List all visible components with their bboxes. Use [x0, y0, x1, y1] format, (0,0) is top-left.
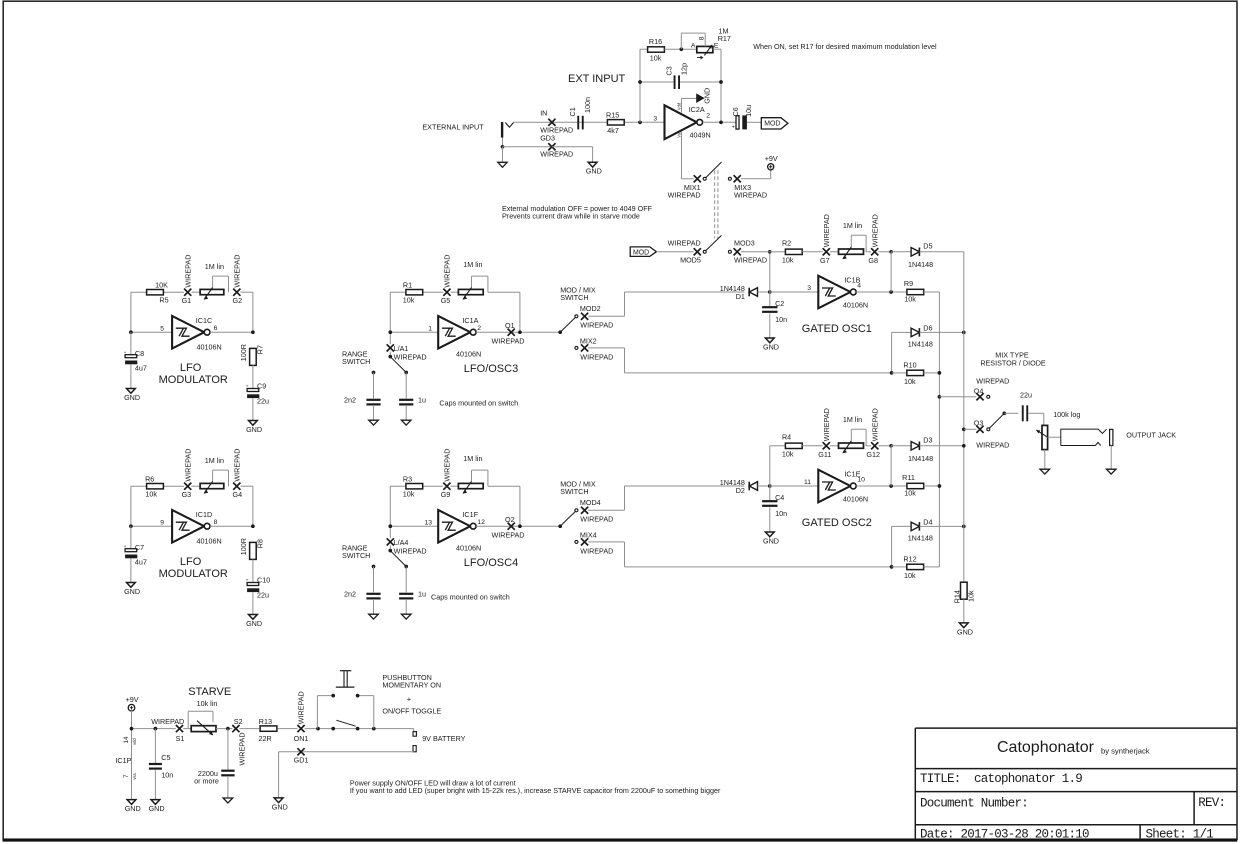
svg-text:22R: 22R	[259, 734, 272, 743]
svg-text:MODULATOR: MODULATOR	[159, 374, 228, 386]
svg-text:EXTERNAL INPUT: EXTERNAL INPUT	[422, 122, 484, 131]
svg-text:GND: GND	[246, 619, 262, 628]
svg-text:or more: or more	[194, 777, 219, 786]
svg-text:+9V: +9V	[126, 695, 139, 704]
svg-text:If you want to add LED (super: If you want to add LED (super bright wit…	[350, 786, 721, 795]
svg-text:S2: S2	[234, 717, 243, 726]
svg-text:R1: R1	[403, 281, 412, 290]
svg-text:D5: D5	[923, 242, 932, 251]
svg-text:GND: GND	[125, 804, 141, 813]
svg-text:IC1A: IC1A	[462, 316, 478, 325]
svg-text:Date: 2017-03-28 20:01:10: Date: 2017-03-28 20:01:10	[920, 827, 1089, 841]
svg-text:C8: C8	[135, 349, 144, 358]
svg-text:2n2: 2n2	[344, 590, 356, 599]
svg-text:10k: 10k	[904, 377, 916, 386]
svg-text:LFO: LFO	[180, 362, 202, 374]
svg-text:R8: R8	[256, 539, 265, 548]
svg-text:1N4148: 1N4148	[908, 534, 933, 543]
svg-text:WIREPAD: WIREPAD	[580, 515, 613, 524]
svg-text:GND: GND	[957, 627, 973, 636]
svg-text:GATED OSC2: GATED OSC2	[802, 517, 872, 529]
svg-text:22u: 22u	[257, 396, 269, 405]
svg-text:G4: G4	[233, 490, 243, 499]
svg-text:40106N: 40106N	[456, 544, 481, 553]
svg-text:GND: GND	[272, 802, 288, 811]
svg-text:MOD2: MOD2	[580, 304, 601, 313]
svg-text:MOD3: MOD3	[734, 239, 755, 248]
svg-text:WIREPAD: WIREPAD	[870, 408, 879, 441]
svg-text:When ON, set R17 for desired m: When ON, set R17 for desired maximum mod…	[753, 42, 937, 51]
svg-text:4049N: 4049N	[690, 131, 711, 140]
svg-text:MIX4: MIX4	[580, 530, 597, 539]
svg-text:10k: 10k	[145, 490, 157, 499]
svg-text:2: 2	[706, 113, 710, 120]
svg-text:IC1B: IC1B	[844, 275, 860, 284]
svg-text:GD1: GD1	[294, 756, 309, 765]
svg-text:1N4148: 1N4148	[908, 454, 933, 463]
svg-text:100R: 100R	[239, 344, 248, 361]
svg-text:IC1D: IC1D	[196, 510, 212, 519]
svg-text:Vdd: Vdd	[676, 102, 681, 110]
svg-text:WIREPAD: WIREPAD	[976, 377, 1009, 386]
svg-text:3: 3	[653, 115, 657, 122]
svg-text:10k: 10k	[782, 450, 794, 459]
svg-text:10k: 10k	[904, 571, 916, 580]
svg-text:G11: G11	[818, 450, 831, 459]
svg-text:TITLE: catophonator 1.9: TITLE: catophonator 1.9	[920, 772, 1082, 786]
svg-text:SWITCH: SWITCH	[342, 551, 370, 560]
svg-text:ON1: ON1	[294, 734, 309, 743]
svg-text:IN: IN	[540, 109, 547, 118]
svg-text:22u: 22u	[257, 590, 269, 599]
svg-text:2n2: 2n2	[344, 396, 356, 405]
svg-text:WIREPAD: WIREPAD	[580, 352, 613, 361]
svg-text:ON/OFF TOGGLE: ON/OFF TOGGLE	[382, 706, 441, 715]
svg-text:Catophonator: Catophonator	[997, 739, 1095, 756]
svg-text:14: 14	[123, 736, 130, 743]
svg-text:WIREPAD: WIREPAD	[443, 449, 452, 482]
svg-text:WIREPAD: WIREPAD	[734, 256, 767, 265]
svg-text:R4: R4	[782, 433, 791, 442]
svg-text:R7: R7	[256, 345, 265, 354]
svg-text:10K: 10K	[155, 281, 168, 290]
svg-text:R13: R13	[259, 717, 272, 726]
svg-text:GND: GND	[763, 536, 779, 545]
svg-text:WIREPAD: WIREPAD	[232, 449, 241, 482]
svg-text:9: 9	[160, 519, 164, 526]
svg-text:WIREPAD: WIREPAD	[668, 191, 701, 200]
svg-text:R3: R3	[403, 475, 412, 484]
svg-text:+: +	[407, 694, 411, 703]
svg-text:100R: 100R	[239, 538, 248, 555]
svg-text:1M lin: 1M lin	[205, 456, 224, 465]
svg-text:OUTPUT JACK: OUTPUT JACK	[1126, 430, 1176, 439]
svg-text:Document Number:: Document Number:	[920, 796, 1028, 810]
svg-text:G12: G12	[866, 450, 880, 459]
svg-text:R5: R5	[159, 296, 168, 305]
svg-text:40106N: 40106N	[197, 343, 222, 352]
svg-text:A: A	[691, 43, 696, 50]
svg-text:WIREPAD: WIREPAD	[296, 691, 305, 724]
svg-text:D3: D3	[923, 436, 932, 445]
svg-text:1M lin: 1M lin	[463, 454, 482, 463]
svg-text:C3: C3	[665, 66, 674, 75]
svg-text:G3: G3	[182, 490, 192, 499]
svg-text:R15: R15	[606, 110, 619, 119]
svg-text:1u: 1u	[418, 590, 426, 599]
svg-text:WIREPAD: WIREPAD	[580, 546, 613, 555]
svg-text:4u7: 4u7	[135, 558, 147, 567]
svg-text:1u: 1u	[418, 396, 426, 405]
svg-text:C9: C9	[257, 382, 266, 391]
svg-text:IC1E: IC1E	[844, 469, 860, 478]
svg-text:1M lin: 1M lin	[463, 260, 482, 269]
svg-text:10k: 10k	[904, 294, 916, 303]
svg-text:GND: GND	[149, 804, 165, 813]
svg-text:G8: G8	[868, 256, 878, 265]
svg-text:7: 7	[123, 774, 130, 778]
svg-text:MOD5: MOD5	[680, 256, 701, 265]
svg-text:GATED OSC1: GATED OSC1	[802, 323, 872, 335]
svg-text:1M lin: 1M lin	[843, 221, 862, 230]
svg-text:10u: 10u	[744, 105, 753, 117]
svg-text:WIREPAD: WIREPAD	[540, 149, 573, 158]
svg-text:+: +	[124, 351, 127, 356]
svg-text:R12: R12	[903, 554, 916, 563]
svg-text:WIREPAD: WIREPAD	[491, 530, 524, 539]
svg-text:WIREPAD: WIREPAD	[734, 191, 767, 200]
svg-text:SWITCH: SWITCH	[560, 487, 588, 496]
svg-text:O3: O3	[974, 418, 984, 427]
svg-text:GND: GND	[124, 393, 140, 402]
svg-text:10k: 10k	[650, 54, 662, 63]
svg-text:WIREPAD: WIREPAD	[822, 408, 831, 441]
svg-text:40106N: 40106N	[843, 301, 868, 310]
svg-text:9V BATTERY: 9V BATTERY	[422, 734, 465, 743]
svg-text:+: +	[246, 579, 249, 584]
svg-text:100n: 100n	[583, 97, 592, 113]
svg-text:SWITCH: SWITCH	[560, 293, 588, 302]
svg-text:C6: C6	[731, 107, 740, 116]
svg-text:40106N: 40106N	[197, 537, 222, 546]
svg-text:2: 2	[477, 325, 481, 332]
svg-text:STARVE: STARVE	[188, 686, 231, 698]
svg-text:WIREPAD: WIREPAD	[976, 440, 1009, 449]
svg-text:11: 11	[804, 479, 811, 486]
svg-text:C10: C10	[257, 576, 270, 585]
svg-text:C1: C1	[568, 107, 577, 116]
svg-text:10k lin: 10k lin	[197, 699, 218, 708]
svg-text:WIREPAD: WIREPAD	[183, 449, 192, 482]
svg-text:D6: D6	[923, 323, 932, 332]
svg-text:D4: D4	[923, 517, 932, 526]
svg-text:+: +	[246, 385, 249, 390]
svg-text:D1: D1	[736, 292, 745, 301]
svg-text:MOD: MOD	[633, 250, 649, 257]
svg-text:8: 8	[214, 519, 218, 526]
svg-text:4k7: 4k7	[607, 126, 619, 135]
svg-text:1: 1	[428, 325, 432, 332]
svg-text:13: 13	[424, 519, 432, 526]
svg-text:O4: O4	[974, 386, 984, 395]
svg-text:IC1C: IC1C	[196, 316, 212, 325]
svg-text:+: +	[732, 124, 735, 130]
svg-text:WIREPAD: WIREPAD	[151, 717, 184, 726]
svg-text:40106N: 40106N	[456, 350, 481, 359]
svg-text:C5: C5	[161, 753, 170, 762]
svg-text:+: +	[124, 545, 127, 550]
svg-text:40106N: 40106N	[843, 495, 868, 504]
svg-text:10k: 10k	[904, 488, 916, 497]
svg-text:LFO/OSC4: LFO/OSC4	[464, 557, 518, 569]
svg-text:WIREPAD: WIREPAD	[580, 321, 613, 330]
svg-text:R17: R17	[718, 34, 731, 43]
svg-text:vss: vss	[132, 773, 137, 779]
svg-text:R16: R16	[649, 37, 662, 46]
svg-text:R14: R14	[952, 590, 961, 603]
svg-text:LFO/OSC3: LFO/OSC3	[464, 363, 518, 375]
svg-text:R9: R9	[904, 279, 913, 288]
svg-text:10k: 10k	[403, 490, 415, 499]
svg-text:1M lin: 1M lin	[205, 262, 224, 271]
svg-text:Caps mounted on switch: Caps mounted on switch	[439, 398, 518, 407]
svg-text:G1: G1	[182, 296, 192, 305]
svg-text:Vss: Vss	[676, 131, 681, 138]
svg-text:IC2A: IC2A	[689, 105, 705, 114]
svg-text:12: 12	[477, 519, 485, 526]
svg-text:8: 8	[698, 36, 705, 40]
svg-text:G5: G5	[441, 296, 451, 305]
svg-text:3: 3	[807, 285, 811, 292]
svg-text:WIREPAD: WIREPAD	[668, 239, 701, 248]
svg-text:C7: C7	[135, 543, 144, 552]
svg-text:G2: G2	[233, 296, 243, 305]
svg-text:R10: R10	[903, 360, 916, 369]
svg-text:GND: GND	[763, 342, 779, 351]
svg-text:WIREPAD: WIREPAD	[443, 255, 452, 288]
svg-text:5: 5	[160, 325, 164, 332]
svg-text:G9: G9	[441, 490, 451, 499]
svg-text:R11: R11	[902, 473, 915, 482]
svg-text:WIREPAD: WIREPAD	[183, 255, 192, 288]
svg-text:Prevents current draw while in: Prevents current draw while in starve mo…	[502, 211, 640, 220]
svg-text:Sheet: 1/1: Sheet: 1/1	[1146, 827, 1214, 841]
svg-text:MOD: MOD	[764, 121, 780, 128]
svg-text:S1: S1	[176, 734, 185, 743]
svg-text:MOD4: MOD4	[580, 498, 601, 507]
svg-text:by syntherjack: by syntherjack	[1101, 747, 1150, 756]
svg-text:GND: GND	[124, 587, 140, 596]
svg-text:10n: 10n	[161, 771, 173, 780]
svg-text:IC1P: IC1P	[115, 756, 131, 765]
svg-text:SWITCH: SWITCH	[342, 357, 370, 366]
svg-text:WIREPAD: WIREPAD	[238, 732, 247, 765]
svg-text:6: 6	[214, 325, 218, 332]
svg-text:IC1F: IC1F	[462, 510, 478, 519]
svg-text:10k: 10k	[782, 256, 794, 265]
svg-text:RESISTOR / DIODE: RESISTOR / DIODE	[980, 358, 1046, 367]
svg-text:EXT INPUT: EXT INPUT	[568, 73, 626, 85]
svg-text:WIREPAD: WIREPAD	[394, 352, 427, 361]
svg-text:100k log: 100k log	[1053, 410, 1080, 419]
svg-text:4u7: 4u7	[135, 364, 147, 373]
svg-text:1N4148: 1N4148	[908, 260, 933, 269]
svg-text:LFO: LFO	[180, 556, 202, 568]
svg-text:R2: R2	[782, 239, 791, 248]
svg-text:22u: 22u	[1020, 390, 1032, 399]
svg-text:10k: 10k	[966, 590, 975, 602]
svg-text:GND: GND	[702, 88, 711, 104]
svg-text:WIREPAD: WIREPAD	[394, 546, 427, 555]
svg-text:MODULATOR: MODULATOR	[159, 568, 228, 580]
svg-text:R6: R6	[145, 475, 154, 484]
svg-text:WIREPAD: WIREPAD	[491, 336, 524, 345]
svg-text:WIREPAD: WIREPAD	[870, 214, 879, 247]
svg-text:10n: 10n	[775, 315, 787, 324]
svg-text:GD3: GD3	[540, 134, 555, 143]
svg-text:O2: O2	[505, 515, 515, 524]
svg-text:WIREPAD: WIREPAD	[822, 214, 831, 247]
svg-text:C4: C4	[775, 493, 784, 502]
svg-text:MOMENTARY ON: MOMENTARY ON	[382, 680, 441, 689]
svg-text:12p: 12p	[679, 63, 688, 75]
svg-text:REV:: REV:	[1198, 796, 1225, 810]
svg-text:O1: O1	[505, 321, 515, 330]
svg-text:1N4148: 1N4148	[908, 340, 933, 349]
svg-text:WIREPAD: WIREPAD	[232, 255, 241, 288]
svg-text:GND: GND	[586, 167, 602, 176]
svg-text:+9V: +9V	[765, 154, 778, 163]
svg-text:G7: G7	[820, 256, 830, 265]
svg-text:vdd: vdd	[132, 738, 137, 745]
svg-text:D2: D2	[736, 486, 745, 495]
svg-text:10k: 10k	[403, 296, 415, 305]
svg-text:C2: C2	[775, 299, 784, 308]
svg-text:1M lin: 1M lin	[843, 415, 862, 424]
svg-text:Caps mounted on switch: Caps mounted on switch	[431, 592, 510, 601]
svg-text:E: E	[714, 43, 719, 50]
svg-text:10n: 10n	[775, 509, 787, 518]
svg-text:MIX2: MIX2	[580, 336, 597, 345]
svg-text:GND: GND	[246, 425, 262, 434]
